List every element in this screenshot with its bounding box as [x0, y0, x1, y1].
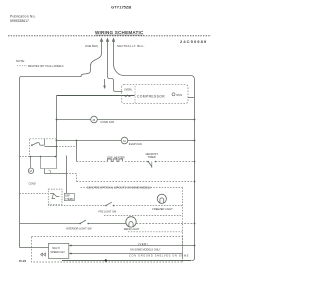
wire: fan box out mid	[69, 253, 183, 255]
wire: switch to freezer light	[114, 205, 183, 207]
node heater drop	[76, 140, 78, 142]
wire: condenser fan line	[57, 119, 91, 121]
evap fan motor	[121, 137, 128, 144]
svg-text:TIMER: TIMER	[148, 155, 156, 159]
wire: mullion dashed line to bus	[77, 181, 195, 183]
wire: center vertical drop from compressor feed	[56, 96, 58, 157]
wire to left motor circle	[30, 157, 32, 168]
wire: heater feed dashed	[77, 161, 108, 163]
svg-text:NOTE:: NOTE:	[16, 59, 25, 63]
dashed line through cold control bottom	[20, 156, 57, 158]
refr compartment dashed return wire	[128, 231, 183, 233]
wire: heater drop vertical	[76, 141, 78, 162]
node dots on dashed	[30, 156, 32, 158]
svg-text:5995338617: 5995338617	[10, 19, 29, 23]
node: bus cond fan	[194, 119, 196, 121]
freezer compartment dashed top edge	[81, 187, 183, 189]
svg-text:DENOTES OPTIONAL CIRCUITS ON S: DENOTES OPTIONAL CIRCUITS ON SOME MODELS	[87, 185, 151, 189]
wire: compressor feed horizontal	[57, 95, 135, 97]
dashed jog to mullion line	[67, 174, 77, 182]
cold control dashed box	[30, 139, 57, 157]
wire: left bus bottom to fan box	[20, 247, 32, 249]
svg-text:CON GROUND SHELVES ON SOME: CON GROUND SHELVES ON SOME	[129, 255, 189, 258]
svg-text:OVERL: OVERL	[124, 88, 133, 91]
defrost thermostat dashed box	[48, 189, 62, 204]
node: feed tee	[56, 119, 58, 121]
svg-text:THERM: THERM	[65, 199, 73, 201]
sub wire below cold control	[41, 157, 57, 169]
note dashed sample	[17, 65, 27, 67]
wire: heater to timer dashed	[125, 161, 148, 163]
svg-text:FREEZER LIGHT: FREEZER LIGHT	[152, 207, 173, 211]
wire: refr lamp to bus	[136, 223, 194, 225]
defrost heater element	[108, 159, 123, 162]
svg-text:COMPRESSOR: COMPRESSOR	[137, 95, 165, 99]
svg-text:DENOTES NOT ON ALL MODELS: DENOTES NOT ON ALL MODELS	[28, 65, 64, 68]
svg-text:DEF: DEF	[65, 196, 70, 198]
refrigerator light lamp	[126, 217, 136, 227]
svg-text:EVAP FAN: EVAP FAN	[129, 142, 142, 146]
overload element	[125, 95, 131, 96]
thermostat switch symbol	[50, 194, 60, 199]
header publication number text	[10, 15, 36, 24]
line supply arrow 1 (left, BLK)	[100, 38, 103, 54]
svg-text:SPEED FAN: SPEED FAN	[50, 251, 64, 254]
wire: cold control to feed vertical	[45, 146, 57, 148]
svg-text:RUN: RUN	[177, 93, 183, 97]
header dashed separator line	[8, 35, 211, 37]
fan motor box	[49, 243, 69, 258]
wire: bus entry to fan box	[32, 247, 49, 249]
wire: bottom line	[62, 260, 192, 262]
wire: fan box out top	[69, 245, 195, 247]
wire: evap fan line left	[57, 140, 122, 142]
wire: freezer light dashed line	[48, 204, 105, 205]
wire: cond fan to right bus	[97, 119, 194, 121]
svg-text:GTY175ZB: GTY175ZB	[111, 5, 131, 10]
page background	[0, 0, 218, 285]
bottom dashed enclosure	[32, 237, 183, 263]
node cold control	[56, 146, 58, 148]
svg-text:REFR LIGHT: REFR LIGHT	[124, 227, 140, 231]
svg-text:(VER): (VER)	[138, 242, 148, 246]
stub with down arrow	[103, 79, 106, 89]
wire: left supply S-curve to left bus	[20, 54, 102, 79]
wire: upper refr dashed line	[104, 215, 183, 217]
overload section dashed partition	[134, 86, 136, 103]
wire: bus thermostat feed dashed	[20, 193, 49, 195]
wire: left bus vertical	[19, 79, 21, 248]
node: evap tee	[56, 140, 58, 142]
dashed vertical freezer boundary	[182, 188, 184, 263]
wire: timer to bus dashed	[156, 161, 195, 163]
supply arrow 2 (middle)	[106, 38, 109, 54]
condenser fan motor	[91, 116, 98, 123]
run winding element	[172, 93, 182, 97]
freezer light switch	[105, 202, 114, 206]
wire: compressor to right bus	[188, 97, 195, 99]
node fan out top	[70, 245, 72, 247]
svg-text:LINE BLK): LINE BLK)	[85, 44, 98, 48]
svg-text:COND FAN: COND FAN	[100, 120, 114, 124]
supply arrow 3 (right, neutral)	[112, 38, 115, 54]
left small motor	[28, 168, 33, 173]
svg-text:NEUTRAL LT. BLU-: NEUTRAL LT. BLU-	[117, 44, 145, 48]
small hook on branch	[49, 170, 52, 174]
svg-text:ON SOME MODELS ONLY: ON SOME MODELS ONLY	[130, 249, 161, 252]
freezer light lamp	[157, 194, 166, 203]
wire: right bus bottom corner	[192, 258, 195, 261]
svg-text:INTERIOR LIGHT SW: INTERIOR LIGHT SW	[66, 227, 92, 231]
wire: evap fan to right bus	[128, 140, 195, 142]
defrost timer switch	[147, 161, 156, 168]
wire: interior light line	[20, 223, 81, 225]
wire: right bus vertical	[194, 80, 196, 259]
svg-text:M: M	[30, 169, 32, 173]
node bus mullion	[194, 181, 196, 183]
svg-text:COND: COND	[29, 183, 36, 186]
wire: switch to refr lamp	[89, 223, 126, 225]
cold control switch	[31, 139, 44, 146]
wire: loop tap to thermostat branch	[45, 169, 67, 174]
svg-text:FRZ LIGHT SW: FRZ LIGHT SW	[99, 211, 117, 214]
svg-text:WIRING SCHEMATIC: WIRING SCHEMATIC	[95, 30, 144, 35]
wire: right supply curve to right bus	[114, 54, 195, 80]
dashed drop from cold control to defrost line	[57, 141, 77, 147]
wire: middle supply down jog to relay	[108, 54, 123, 92]
node bus fan	[194, 245, 196, 247]
svg-text:15-22: 15-22	[19, 259, 27, 263]
interior light switch	[79, 220, 89, 224]
svg-text:MULTI: MULTI	[52, 247, 60, 250]
node bus defrost	[194, 161, 196, 163]
compressor dashed enclosure	[122, 85, 188, 104]
node bottom junction	[105, 259, 107, 261]
connector symbol left of fan box	[41, 253, 46, 256]
node fan out mid	[70, 253, 72, 255]
wire: center vertical to defrost thermostat	[66, 156, 68, 194]
svg-text:Publication No.: Publication No.	[10, 15, 36, 19]
thermostat label box	[64, 193, 74, 200]
node: bus evap	[194, 140, 196, 142]
svg-text:24C50989: 24C50989	[180, 39, 207, 44]
node bus light	[194, 223, 196, 225]
